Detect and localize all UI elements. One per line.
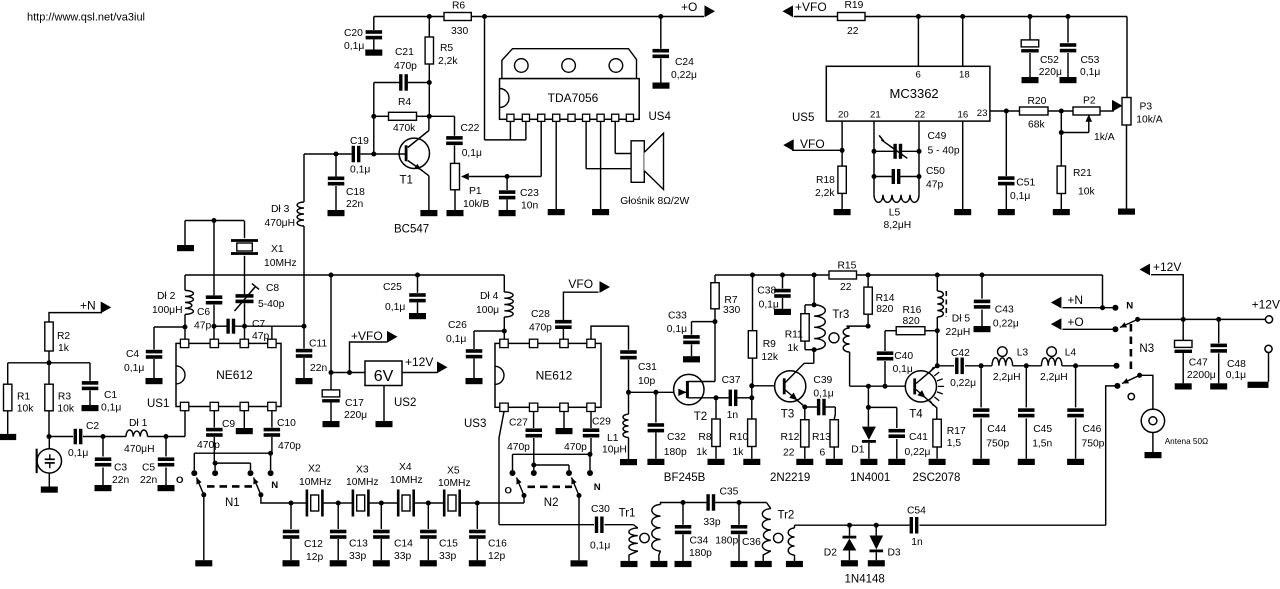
svg-text:10k/A: 10k/A xyxy=(1136,115,1162,126)
svg-text:Tr2: Tr2 xyxy=(778,510,795,522)
svg-text:1k: 1k xyxy=(733,447,745,458)
svg-text:1N4148: 1N4148 xyxy=(845,574,885,585)
svg-text:220μ: 220μ xyxy=(344,410,367,421)
svg-text:1k: 1k xyxy=(58,343,70,354)
svg-text:10k: 10k xyxy=(57,404,74,415)
svg-text:C18: C18 xyxy=(346,187,365,198)
svg-text:Dł 3: Dł 3 xyxy=(271,204,290,215)
svg-text:47p: 47p xyxy=(926,180,943,191)
svg-text:0,1μ: 0,1μ xyxy=(446,334,466,345)
svg-text:0,1μ: 0,1μ xyxy=(344,41,364,52)
svg-text:68k: 68k xyxy=(1028,120,1045,131)
svg-text:C4: C4 xyxy=(126,349,139,360)
svg-text:C44: C44 xyxy=(987,424,1006,435)
svg-text:D2: D2 xyxy=(824,548,837,559)
svg-text:C39: C39 xyxy=(813,375,832,386)
svg-text:C33: C33 xyxy=(668,310,687,321)
svg-text:470p: 470p xyxy=(394,61,417,72)
svg-text:R12: R12 xyxy=(781,432,800,443)
svg-text:C21: C21 xyxy=(395,47,414,58)
svg-text:0,22μ: 0,22μ xyxy=(950,378,976,389)
svg-text:C23: C23 xyxy=(520,188,539,199)
svg-text:22n: 22n xyxy=(346,199,363,210)
svg-text:R8: R8 xyxy=(698,432,711,443)
svg-text:R15: R15 xyxy=(838,261,857,272)
svg-text:BC547: BC547 xyxy=(394,224,429,236)
svg-text:22n: 22n xyxy=(310,363,327,374)
svg-text:180p: 180p xyxy=(715,536,738,547)
svg-text:C6: C6 xyxy=(197,307,210,318)
svg-text:P2: P2 xyxy=(1083,96,1096,107)
svg-text:C31: C31 xyxy=(638,362,657,373)
svg-text:O: O xyxy=(176,475,184,486)
svg-text:C15: C15 xyxy=(439,539,458,550)
svg-text:X1: X1 xyxy=(271,244,284,255)
svg-text:6: 6 xyxy=(820,448,826,459)
svg-text:10n: 10n xyxy=(521,201,538,212)
svg-text:R5: R5 xyxy=(440,43,453,54)
svg-text:0,1μ: 0,1μ xyxy=(350,165,370,176)
svg-text:0,22μ: 0,22μ xyxy=(905,447,931,458)
svg-text:20: 20 xyxy=(838,110,849,121)
svg-text:47p: 47p xyxy=(252,331,269,342)
svg-text:470p: 470p xyxy=(278,441,301,452)
svg-text:Dł 2: Dł 2 xyxy=(157,291,176,302)
svg-text:R19: R19 xyxy=(845,0,864,11)
svg-text:C54: C54 xyxy=(907,506,926,517)
svg-text:10MHz: 10MHz xyxy=(264,258,297,269)
svg-text:US2: US2 xyxy=(394,397,416,409)
svg-text:Antena 50Ω: Antena 50Ω xyxy=(1165,437,1208,446)
svg-text:750p: 750p xyxy=(1082,439,1105,450)
svg-text:TDA7056: TDA7056 xyxy=(548,91,599,105)
svg-text:0,1μ: 0,1μ xyxy=(1010,191,1030,202)
svg-text:2,2k: 2,2k xyxy=(815,188,835,199)
svg-text:C1: C1 xyxy=(104,390,117,401)
svg-text:US3: US3 xyxy=(464,418,486,430)
svg-text:470p: 470p xyxy=(529,323,552,334)
svg-text:Tr3: Tr3 xyxy=(832,309,849,321)
svg-text:0,1μ: 0,1μ xyxy=(813,388,833,399)
svg-text:21: 21 xyxy=(870,110,881,121)
svg-text:100μH: 100μH xyxy=(152,305,183,316)
svg-text:1k/A: 1k/A xyxy=(1094,132,1115,143)
svg-text:820: 820 xyxy=(903,316,920,327)
svg-text:T3: T3 xyxy=(781,408,794,420)
svg-text:R18: R18 xyxy=(816,175,835,186)
svg-text:470μH: 470μH xyxy=(265,218,296,229)
svg-text:10μH: 10μH xyxy=(602,445,627,456)
svg-text:2,2μH: 2,2μH xyxy=(1040,372,1068,383)
svg-text:23: 23 xyxy=(977,108,988,119)
svg-text:R20: R20 xyxy=(1028,96,1047,107)
svg-text:+12V: +12V xyxy=(1252,298,1280,312)
svg-text:220μ: 220μ xyxy=(1039,67,1062,78)
svg-text:22: 22 xyxy=(783,448,795,459)
svg-text:R13: R13 xyxy=(812,432,831,443)
svg-text:+O: +O xyxy=(681,0,697,14)
svg-text:180p: 180p xyxy=(689,548,712,559)
svg-text:+O: +O xyxy=(1067,315,1083,329)
svg-text:R17: R17 xyxy=(947,426,966,437)
svg-text:BF245B: BF245B xyxy=(664,472,706,484)
svg-text:D3: D3 xyxy=(888,548,901,559)
svg-text:C17: C17 xyxy=(345,398,364,409)
svg-text:22n: 22n xyxy=(112,475,129,486)
svg-text:C40: C40 xyxy=(894,351,913,362)
svg-text:VFO: VFO xyxy=(568,277,593,291)
svg-text:R14: R14 xyxy=(876,293,895,304)
svg-text:0,1μ: 0,1μ xyxy=(893,364,913,375)
svg-text:18: 18 xyxy=(959,70,970,81)
svg-text:750p: 750p xyxy=(986,439,1009,450)
svg-text:R1: R1 xyxy=(17,392,30,403)
svg-text:0,1μ: 0,1μ xyxy=(462,148,482,159)
svg-text:D1: D1 xyxy=(851,445,864,456)
svg-text:1k: 1k xyxy=(787,343,799,354)
svg-text:L5: L5 xyxy=(889,208,901,219)
svg-text:C11: C11 xyxy=(309,339,327,350)
svg-text:C28: C28 xyxy=(531,309,550,320)
svg-text:VFO: VFO xyxy=(800,137,825,151)
svg-text:C45: C45 xyxy=(1033,424,1052,435)
svg-text:16: 16 xyxy=(958,110,969,121)
svg-text:2,2k: 2,2k xyxy=(438,56,458,67)
svg-text:C2: C2 xyxy=(86,421,99,432)
svg-text:C9: C9 xyxy=(222,419,235,430)
svg-text:R11: R11 xyxy=(785,330,803,341)
svg-text:R21: R21 xyxy=(1073,168,1092,179)
svg-text:Dł 4: Dł 4 xyxy=(480,291,499,302)
svg-text:6: 6 xyxy=(916,70,921,81)
svg-text:2200μ: 2200μ xyxy=(1187,370,1216,381)
svg-text:0,1μ: 0,1μ xyxy=(667,324,687,335)
svg-text:US5: US5 xyxy=(792,112,814,124)
svg-text:C19: C19 xyxy=(350,136,369,147)
svg-text:C37: C37 xyxy=(722,375,741,386)
svg-text:10MHz: 10MHz xyxy=(438,478,471,489)
svg-text:L3: L3 xyxy=(1017,347,1029,358)
svg-text:10k: 10k xyxy=(1078,187,1095,198)
svg-text:33p: 33p xyxy=(394,551,411,562)
svg-text:0,1μ: 0,1μ xyxy=(1226,370,1246,381)
svg-text:10MHz: 10MHz xyxy=(299,477,332,488)
svg-text:O: O xyxy=(505,486,513,497)
svg-text:R4: R4 xyxy=(398,97,411,108)
svg-text:C14: C14 xyxy=(394,539,413,550)
svg-text:33p: 33p xyxy=(703,517,720,528)
svg-text:Głośnik 8Ω/2W: Głośnik 8Ω/2W xyxy=(620,196,689,207)
svg-text:C47: C47 xyxy=(1189,358,1208,369)
svg-text:C35: C35 xyxy=(720,486,739,497)
svg-text:0,1μ: 0,1μ xyxy=(1080,67,1100,78)
svg-text:N3: N3 xyxy=(1139,343,1154,355)
svg-text:10p: 10p xyxy=(638,376,655,387)
svg-text:33p: 33p xyxy=(349,551,366,562)
svg-text:Tr1: Tr1 xyxy=(619,507,636,519)
svg-text:C38: C38 xyxy=(757,286,776,297)
svg-text:C36: C36 xyxy=(742,537,761,548)
svg-text:C5: C5 xyxy=(142,463,155,474)
svg-text:P3: P3 xyxy=(1140,102,1153,113)
svg-text:N: N xyxy=(594,482,601,493)
svg-text:330: 330 xyxy=(451,26,468,37)
svg-text:N1: N1 xyxy=(225,497,240,509)
svg-text:470p: 470p xyxy=(507,442,530,453)
svg-text:C27: C27 xyxy=(509,418,528,429)
svg-text:330: 330 xyxy=(723,305,740,316)
svg-text:+N: +N xyxy=(80,299,96,313)
svg-text:C7: C7 xyxy=(252,319,265,330)
svg-text:T4: T4 xyxy=(909,408,923,420)
svg-text:8,2μH: 8,2μH xyxy=(884,220,912,231)
svg-text:22: 22 xyxy=(847,26,859,37)
svg-text:R9: R9 xyxy=(763,339,776,350)
svg-text:C34: C34 xyxy=(690,536,709,547)
svg-text:0,22μ: 0,22μ xyxy=(671,70,697,81)
svg-text:C10: C10 xyxy=(277,418,296,429)
svg-text:http://www.qsl.net/va3iul: http://www.qsl.net/va3iul xyxy=(27,12,145,24)
svg-text:C8: C8 xyxy=(266,283,279,294)
svg-text:R16: R16 xyxy=(903,305,922,316)
svg-text:+VFO: +VFO xyxy=(351,329,383,343)
svg-text:470p: 470p xyxy=(564,442,587,453)
svg-text:0,1μ: 0,1μ xyxy=(385,302,405,313)
svg-text:US4: US4 xyxy=(649,111,672,123)
svg-text:C24: C24 xyxy=(675,57,694,68)
svg-text:X4: X4 xyxy=(399,462,412,473)
svg-text:12k: 12k xyxy=(761,352,778,363)
svg-text:22μH: 22μH xyxy=(946,327,971,338)
svg-text:T1: T1 xyxy=(400,175,413,187)
svg-text:820: 820 xyxy=(876,304,893,315)
svg-text:C51: C51 xyxy=(1016,178,1035,189)
svg-text:1k: 1k xyxy=(696,447,708,458)
svg-text:C3: C3 xyxy=(114,463,127,474)
svg-text:1n: 1n xyxy=(727,410,739,421)
svg-text:R6: R6 xyxy=(452,1,465,12)
svg-text:C43: C43 xyxy=(995,304,1014,315)
svg-text:C41: C41 xyxy=(909,432,928,443)
svg-text:+N: +N xyxy=(1067,293,1083,307)
svg-text:MC3362: MC3362 xyxy=(890,86,939,101)
svg-text:1,5: 1,5 xyxy=(947,438,962,449)
svg-text:C16: C16 xyxy=(488,539,507,550)
svg-text:L4: L4 xyxy=(1065,347,1077,358)
svg-text:10k/B: 10k/B xyxy=(463,199,489,210)
svg-text:5 - 40p: 5 - 40p xyxy=(928,146,960,157)
svg-text:2,2μH: 2,2μH xyxy=(993,372,1021,383)
svg-text:2SC2078: 2SC2078 xyxy=(913,472,961,484)
svg-text:C25: C25 xyxy=(383,282,402,293)
svg-text:470μH: 470μH xyxy=(124,444,155,455)
svg-text:10k: 10k xyxy=(17,404,34,415)
svg-text:C48: C48 xyxy=(1227,359,1246,370)
svg-text:N: N xyxy=(1126,301,1133,312)
svg-text:22: 22 xyxy=(915,110,926,121)
svg-text:5-40p: 5-40p xyxy=(258,299,285,310)
svg-text:C32: C32 xyxy=(667,432,686,443)
svg-text:C30: C30 xyxy=(591,504,610,515)
svg-text:C13: C13 xyxy=(349,539,368,550)
svg-text:C22: C22 xyxy=(461,123,480,134)
svg-text:N: N xyxy=(271,480,278,491)
svg-text:6V: 6V xyxy=(374,368,394,385)
svg-text:47p: 47p xyxy=(194,321,211,332)
svg-text:0,1μ: 0,1μ xyxy=(68,448,88,459)
svg-text:0,1μ: 0,1μ xyxy=(590,541,610,552)
svg-text:+12V: +12V xyxy=(405,355,433,369)
svg-text:0,22μ: 0,22μ xyxy=(993,319,1019,330)
svg-text:12p: 12p xyxy=(488,551,505,562)
svg-text:NE612: NE612 xyxy=(536,369,573,383)
svg-text:100μ: 100μ xyxy=(476,305,499,316)
svg-text:X3: X3 xyxy=(356,465,369,476)
svg-text:10MHz: 10MHz xyxy=(390,475,423,486)
svg-text:0,1μ: 0,1μ xyxy=(124,363,144,374)
svg-text:C53: C53 xyxy=(1081,55,1100,66)
svg-text:C42: C42 xyxy=(951,348,970,359)
svg-text:0,1μ: 0,1μ xyxy=(101,403,121,414)
svg-text:+12V: +12V xyxy=(1153,260,1181,274)
svg-text:1N4001: 1N4001 xyxy=(850,472,890,484)
svg-text:12p: 12p xyxy=(306,552,323,563)
svg-text:22n: 22n xyxy=(140,475,157,486)
svg-text:0,1μ: 0,1μ xyxy=(759,299,779,310)
svg-text:C20: C20 xyxy=(344,28,363,39)
svg-text:X2: X2 xyxy=(308,464,321,475)
svg-text:R3: R3 xyxy=(58,392,71,403)
svg-text:NE612: NE612 xyxy=(216,368,253,382)
svg-text:1,5n: 1,5n xyxy=(1032,439,1052,450)
svg-text:X5: X5 xyxy=(447,466,460,477)
svg-text:33p: 33p xyxy=(439,551,456,562)
svg-text:470k: 470k xyxy=(393,123,416,134)
svg-text:C29: C29 xyxy=(592,417,611,428)
svg-text:R10: R10 xyxy=(729,432,748,443)
svg-text:180p: 180p xyxy=(664,447,687,458)
svg-text:C46: C46 xyxy=(1083,424,1102,435)
svg-text:C50: C50 xyxy=(926,166,945,177)
svg-text:470p: 470p xyxy=(197,440,220,451)
svg-text:2N2219: 2N2219 xyxy=(770,472,810,484)
svg-text:10MHz: 10MHz xyxy=(346,477,379,488)
svg-text:R2: R2 xyxy=(57,331,70,342)
svg-text:P1: P1 xyxy=(469,186,482,197)
svg-text:1n: 1n xyxy=(911,537,923,548)
svg-text:C52: C52 xyxy=(1040,55,1059,66)
svg-text:L1: L1 xyxy=(607,433,619,444)
svg-text:Dł 5: Dł 5 xyxy=(952,314,971,325)
svg-text:22: 22 xyxy=(840,282,852,293)
svg-text:C49: C49 xyxy=(928,131,947,142)
svg-text:+VFO: +VFO xyxy=(795,0,827,14)
svg-text:US1: US1 xyxy=(147,398,169,410)
svg-text:C26: C26 xyxy=(448,320,467,331)
svg-text:T2: T2 xyxy=(694,411,707,423)
svg-text:C12: C12 xyxy=(304,539,323,550)
svg-text:Dł 1: Dł 1 xyxy=(129,418,148,429)
svg-text:N2: N2 xyxy=(544,497,559,509)
